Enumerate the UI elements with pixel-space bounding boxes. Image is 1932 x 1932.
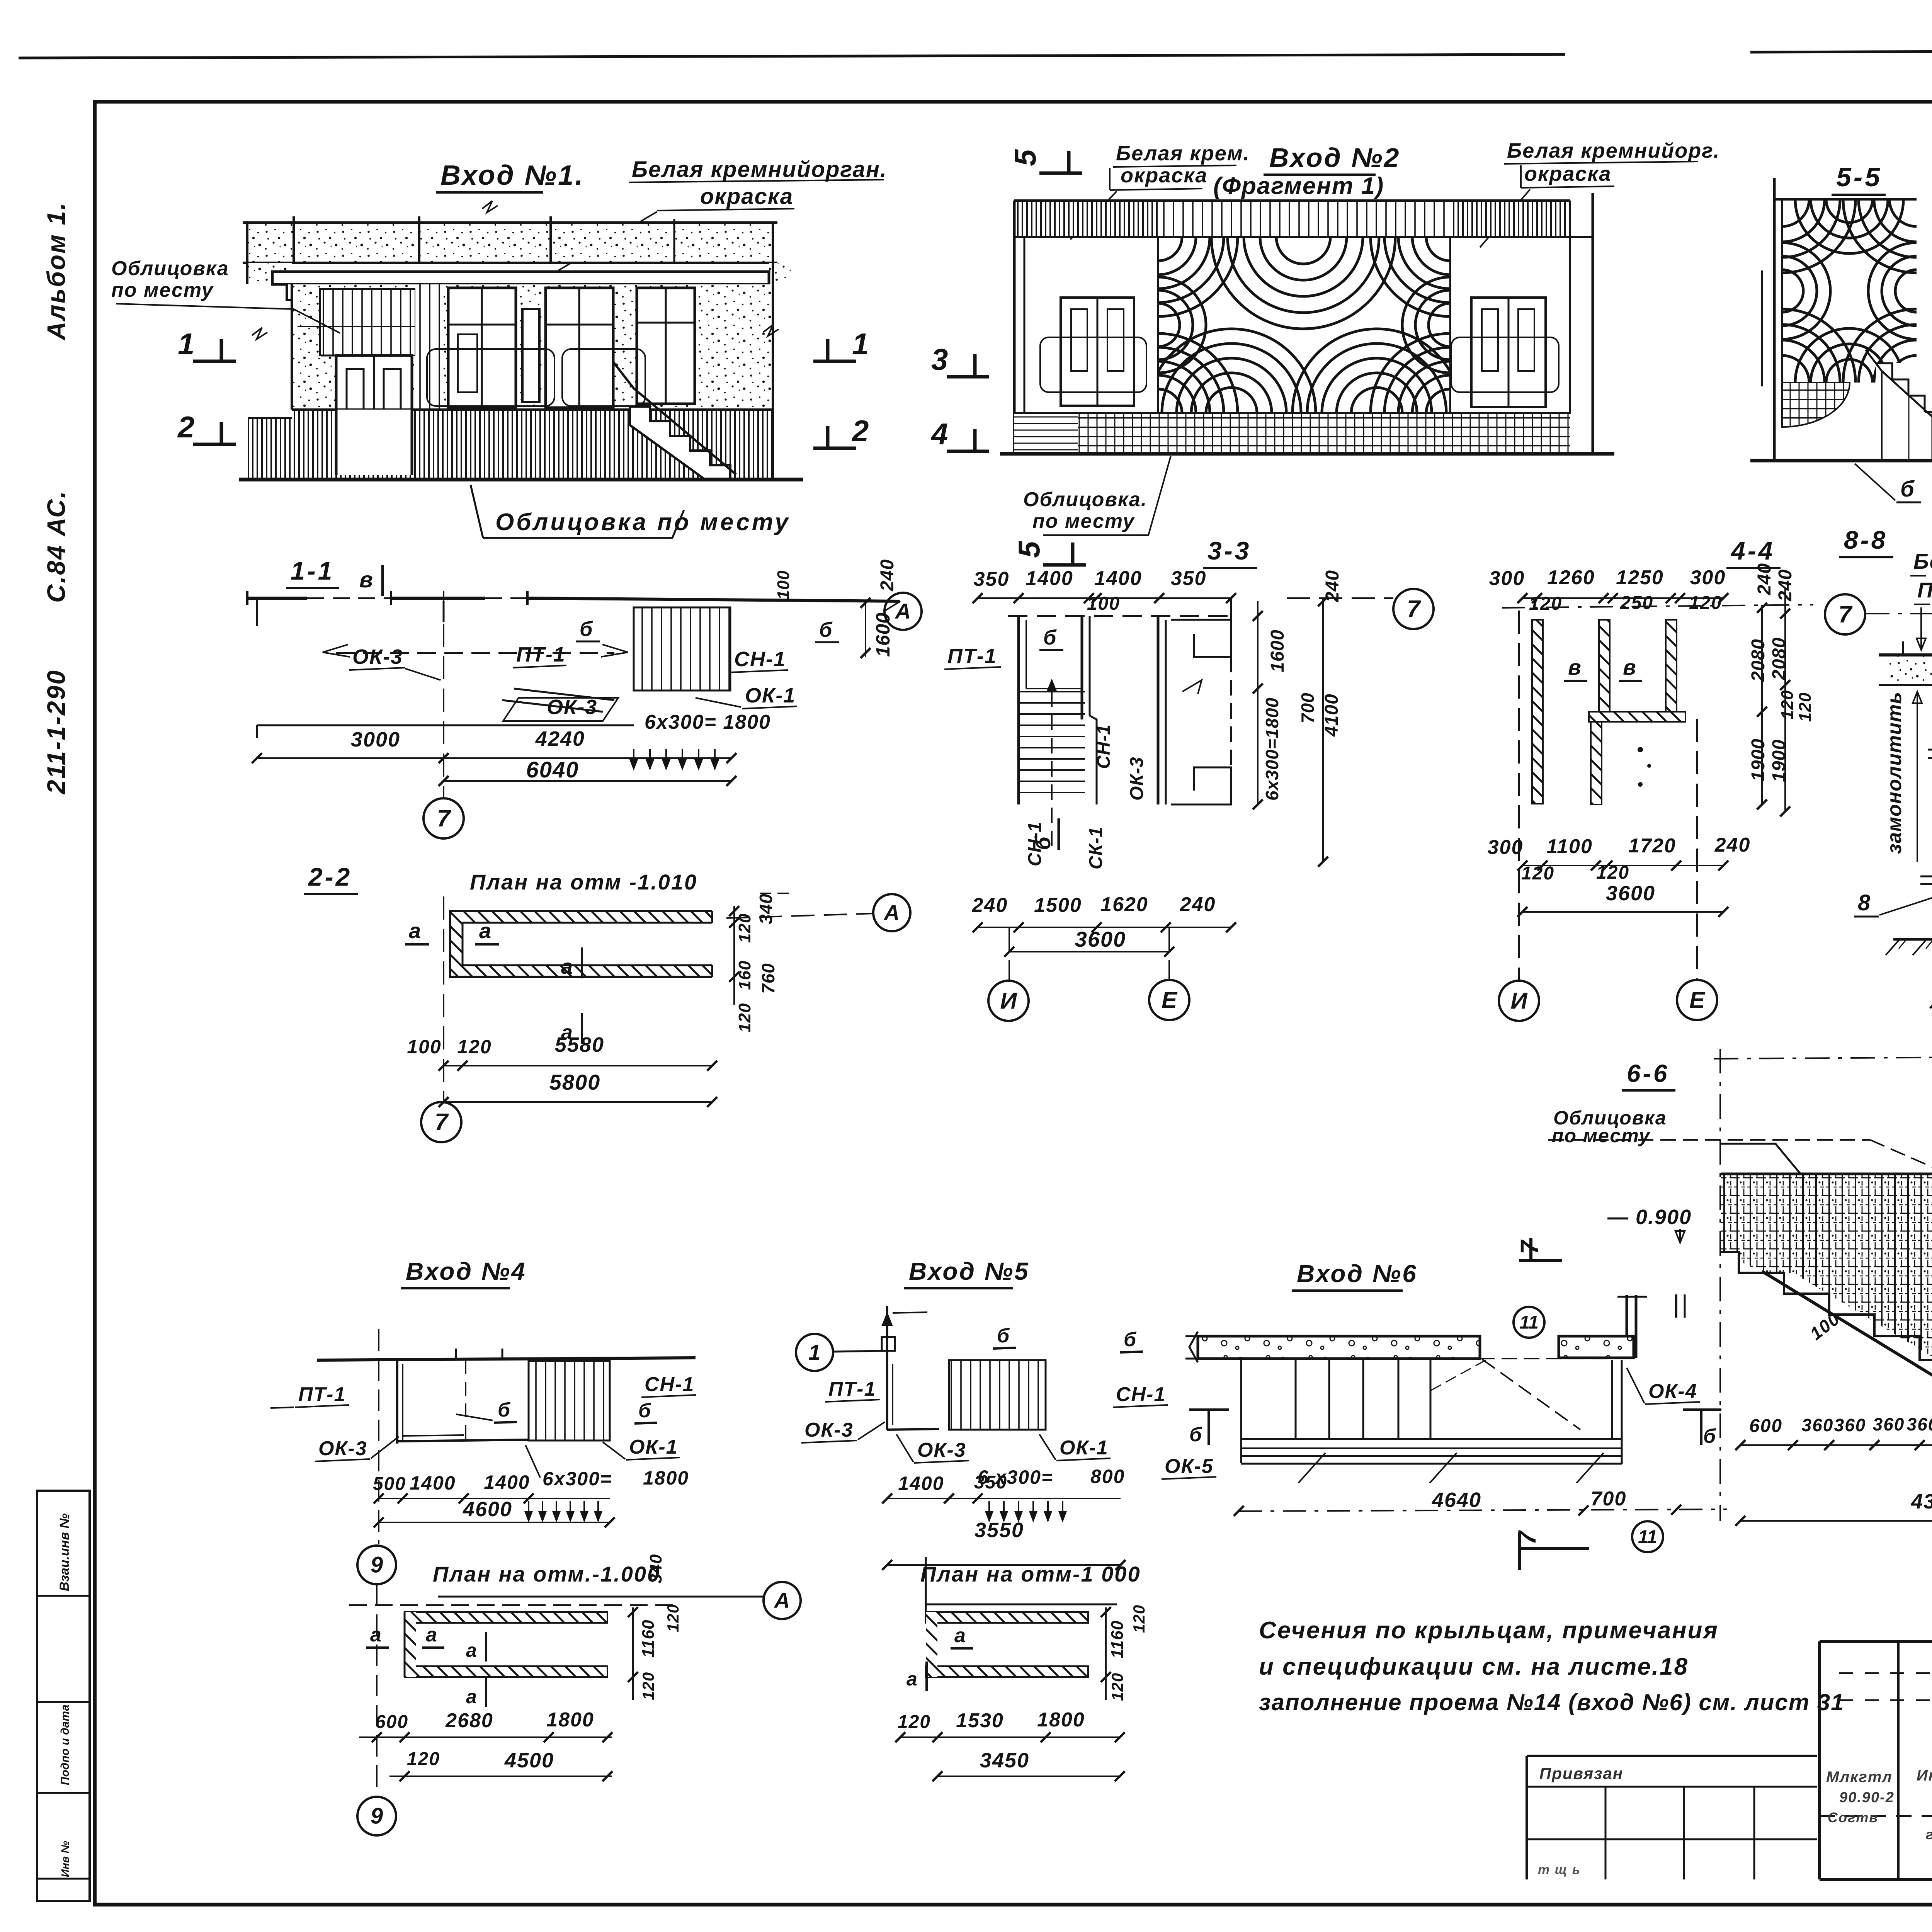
svg-text:3600: 3600 [1075, 927, 1126, 951]
svg-text:5: 5 [1012, 541, 1046, 558]
svg-text:б: б [1043, 626, 1057, 649]
svg-text:Вход №4: Вход №4 [406, 1257, 527, 1285]
entrance 2 section marks 3 and 4 [947, 375, 989, 379]
svg-text:1250: 1250 [1616, 566, 1664, 589]
entrance 1 section marks 1,2 right [813, 360, 856, 363]
svg-text:250: 250 [1620, 593, 1653, 613]
svg-text:С.84 АС.: С.84 АС. [42, 490, 70, 603]
svg-text:90.90-2: 90.90-2 [1839, 1789, 1895, 1806]
svg-text:окраска: окраска [1121, 164, 1207, 187]
svg-text:б: б [580, 617, 593, 641]
svg-text:(Фрагмент 1): (Фрагмент 1) [1213, 173, 1384, 199]
3-3 plan top dashed line [1008, 615, 1233, 617]
svg-text:1260: 1260 [1547, 566, 1595, 589]
svg-text:8: 8 [1858, 890, 1871, 915]
svg-text:б: б [1189, 1423, 1202, 1446]
svg-text:1400: 1400 [484, 1471, 530, 1493]
svg-text:Сечения по крыльцам, прим: Сечения по крыльцам, примечания [1259, 1617, 1719, 1644]
svg-text:6х300=1800: 6х300=1800 [1262, 697, 1282, 801]
svg-text:СН-1: СН-1 [734, 648, 786, 671]
svg-text:а: а [479, 918, 492, 943]
svg-text:3450: 3450 [980, 1749, 1029, 1772]
svg-text:7: 7 [1515, 1239, 1543, 1254]
2-2 axis A [726, 913, 874, 918]
svg-text:б: б [997, 1325, 1010, 1347]
svg-text:1400: 1400 [898, 1473, 944, 1494]
svg-text:240: 240 [1714, 834, 1751, 856]
entrance 5 stair hatch [949, 1360, 1046, 1430]
entrance 1 section marks 1,2 left [193, 360, 236, 363]
svg-text:6х300= 1800: 6х300= 1800 [645, 711, 771, 733]
entrance 1 low rounded panels [427, 349, 554, 406]
entrance 4 top wall line [317, 1358, 696, 1360]
svg-text:ПТ-1: ПТ-1 [516, 643, 566, 666]
svg-text:— 0.900: — 0.900 [1607, 1206, 1692, 1229]
svg-text:Облицовка по месту: Облицовка по месту [495, 509, 791, 536]
svg-text:по месту: по месту [111, 279, 214, 301]
svg-text:т щ ь: т щ ь [1538, 1862, 1581, 1877]
svg-text:и спецификации см. на лис: и спецификации см. на листе.18 [1259, 1653, 1689, 1680]
svg-text:Облицовка: Облицовка [111, 257, 229, 280]
entrance 1 basement hatched band [248, 418, 292, 479]
svg-text:ОК-4: ОК-4 [1648, 1380, 1697, 1403]
4-4 axis dash-dot top [1502, 605, 1813, 608]
entrance 1 window C [637, 288, 695, 404]
svg-text:100: 100 [774, 570, 793, 600]
svg-text:Белая кремнийорган.: Белая кремнийорган. [632, 157, 887, 182]
svg-text:Бетон М200: Бетон М200 [1913, 549, 1932, 573]
svg-text:4600: 4600 [463, 1498, 512, 1521]
entrance 1 striped pier panel over door [320, 289, 415, 355]
4-4 wall bars in section [1532, 620, 1543, 804]
4-4 small circles deco [1638, 747, 1643, 752]
entrance 6 section mark 7 top [1519, 1259, 1562, 1262]
svg-text:Альбом 1.: Альбом 1. [42, 202, 70, 341]
entrance 2 right door panel [1450, 237, 1570, 413]
svg-text:120: 120 [457, 1036, 492, 1058]
svg-text:Облицовка.: Облицовка. [1023, 488, 1147, 511]
entrance 6 axis circle 11 bottom [1632, 1521, 1663, 1552]
svg-text:2: 2 [177, 410, 194, 444]
svg-text:1600: 1600 [872, 612, 894, 657]
svg-text:1620: 1620 [1100, 893, 1148, 916]
4-4 axis circles И Е [1518, 611, 1520, 980]
svg-text:300: 300 [1690, 566, 1726, 589]
svg-text:3: 3 [931, 342, 948, 376]
1-1 top wall lines [247, 597, 307, 600]
6-6 building corner [1720, 1144, 1800, 1173]
3-3 right corridor walls [1157, 616, 1160, 804]
svg-text:ПТ-1: ПТ-1 [828, 1378, 876, 1400]
entrance 6 dashed brace [1482, 1359, 1580, 1430]
sheet top edge line [19, 54, 1565, 58]
svg-text:Е: Е [1689, 987, 1706, 1013]
svg-text:1: 1 [852, 327, 869, 361]
entrance 2 top stripe band middle (sparse) [1158, 201, 1450, 237]
svg-text:4-4: 4-4 [1730, 536, 1775, 565]
svg-text:в: в [1568, 655, 1582, 679]
svg-text:300: 300 [1489, 567, 1525, 590]
entrance 5 corner pilaster mark [886, 1306, 888, 1360]
svg-text:А: А [883, 900, 900, 925]
svg-text:Е: Е [1162, 987, 1178, 1013]
svg-text:1800: 1800 [1037, 1709, 1085, 1731]
svg-text:1800: 1800 [546, 1709, 594, 1731]
svg-text:7: 7 [437, 805, 451, 832]
svg-text:Вход №2: Вход №2 [1269, 143, 1400, 173]
svg-text:800: 800 [1090, 1466, 1125, 1487]
title block inner dashes top [1839, 1672, 1932, 1674]
svg-text:1720: 1720 [1628, 835, 1676, 857]
svg-text:211-1-290: 211-1-290 [42, 669, 70, 795]
svg-text:2680: 2680 [445, 1709, 493, 1732]
entrance 1 window B [546, 288, 613, 408]
entrance 6 right slab [1559, 1336, 1634, 1358]
svg-text:Подпо и дата: Подпо и дата [59, 1704, 71, 1785]
svg-text:б: б [1124, 1328, 1137, 1351]
svg-text:1: 1 [178, 327, 194, 361]
svg-text:700: 700 [1591, 1488, 1627, 1510]
svg-text:4340: 4340 [1911, 1490, 1932, 1513]
svg-text:360: 360 [1802, 1415, 1834, 1435]
entrance 2 outline [1013, 201, 1016, 453]
3-3 axis circles И Е [1009, 927, 1010, 980]
svg-text:Плита ПТ-1: Плита ПТ-1 [1917, 578, 1932, 602]
svg-text:И: И [1510, 988, 1528, 1014]
svg-text:Привязан: Привязан [1539, 1764, 1623, 1782]
svg-text:б: б [498, 1399, 511, 1421]
svg-text:11: 11 [1519, 1312, 1539, 1333]
svg-text:4100: 4100 [1321, 694, 1342, 737]
8-8 slab [1887, 655, 1932, 685]
entrance 6 bottom rails [1241, 1438, 1622, 1440]
svg-text:120: 120 [1689, 593, 1722, 613]
svg-text:360: 360 [1873, 1414, 1905, 1434]
svg-text:И: И [1000, 988, 1017, 1014]
5-5 brick apron [1782, 383, 1850, 427]
svg-text:700: 700 [1298, 692, 1318, 723]
svg-text:в: в [359, 567, 374, 592]
svg-text:Инв №: Инв № [59, 1841, 71, 1877]
svg-text:б: б [638, 1400, 651, 1422]
svg-text:Вход №1.: Вход №1. [440, 160, 584, 191]
svg-text:3600: 3600 [1606, 882, 1655, 905]
svg-text:ПТ-1: ПТ-1 [947, 645, 997, 668]
svg-text:240: 240 [1180, 893, 1216, 916]
svg-text:120: 120 [407, 1749, 440, 1769]
1-1 dashed guides [336, 652, 614, 654]
svg-text:1100: 1100 [1546, 835, 1593, 858]
svg-text:7: 7 [435, 1109, 449, 1136]
2-2 axis circle 7 [421, 1102, 461, 1142]
svg-text:4500: 4500 [504, 1749, 554, 1772]
8-8 axis circle 7 [1825, 594, 1865, 634]
svg-text:по месту: по месту [1032, 510, 1135, 532]
svg-text:5800: 5800 [549, 1070, 601, 1094]
svg-text:окраска: окраска [1524, 162, 1611, 185]
svg-text:1500: 1500 [1034, 894, 1082, 917]
entrance 2 left door panel [1024, 237, 1158, 413]
svg-text:350: 350 [1171, 567, 1207, 590]
svg-text:Вход №6: Вход №6 [1297, 1260, 1418, 1287]
svg-text:2: 2 [851, 414, 869, 448]
1-1 stair hatch [634, 607, 730, 690]
entrance 5 plan walls [886, 1360, 888, 1430]
entrance 1 window A [448, 288, 516, 408]
svg-text:4640: 4640 [1432, 1488, 1481, 1512]
entrance 4 stair hatch [529, 1361, 610, 1440]
svg-text:1400: 1400 [1094, 567, 1142, 590]
entrance 6 section mark 7 bottom [1518, 1532, 1521, 1570]
svg-text:заполнение проема №14 (вход: заполнение проема №14 (вход №6) см. лист… [1259, 1689, 1845, 1715]
svg-text:Белая крем.: Белая крем. [1116, 142, 1250, 165]
entrance 6 leader dashes [1298, 1453, 1325, 1483]
svg-text:8-8: 8-8 [1844, 526, 1888, 554]
1-1 room outline [256, 598, 258, 626]
svg-text:А: А [774, 1588, 790, 1612]
svg-text:СН-1: СН-1 [1116, 1383, 1166, 1406]
entrance 1 ground line [239, 478, 803, 481]
entrance 2 ground line [1000, 452, 1614, 456]
svg-text:3550: 3550 [975, 1519, 1024, 1542]
3-3 left room walls [1017, 616, 1020, 804]
svg-text:3-3: 3-3 [1207, 536, 1251, 565]
svg-text:ОК-1: ОК-1 [629, 1436, 678, 1458]
svg-text:План на отм.-1.000: План на отм.-1.000 [433, 1562, 660, 1586]
svg-text:350: 350 [974, 568, 1010, 590]
svg-text:1900: 1900 [1769, 739, 1789, 782]
svg-text:360: 360 [1907, 1414, 1932, 1434]
svg-text:1-1: 1-1 [291, 556, 334, 585]
entrance 6 axis circle 11 top [1514, 1307, 1544, 1338]
svg-text:240: 240 [1754, 563, 1775, 595]
svg-text:ОК-3: ОК-3 [318, 1437, 367, 1460]
3-3 axis circle 7 right [1287, 597, 1393, 599]
6-6 steps [1721, 1252, 1932, 1360]
entrance 6 posts [1240, 1359, 1242, 1439]
svg-text:б: б [819, 618, 833, 641]
svg-text:5-5: 5-5 [1836, 162, 1882, 192]
svg-text:окраска: окраска [700, 184, 793, 209]
entrance 2 top stripe band right [1450, 201, 1570, 237]
svg-text:по месту: по месту [1552, 1125, 1650, 1146]
svg-text:600: 600 [375, 1712, 408, 1732]
svg-text:в: в [1623, 655, 1637, 679]
entrance 5 axis circle 1 [796, 1334, 833, 1371]
svg-text:120: 120 [639, 1672, 657, 1700]
svg-text:а: а [906, 1668, 918, 1690]
svg-text:а: а [426, 1624, 438, 1646]
left side small table [37, 1491, 90, 1901]
svg-text:2080: 2080 [1769, 637, 1789, 680]
svg-text:Взаи.инв №: Взаи.инв № [57, 1514, 72, 1591]
svg-text:б: б [1031, 836, 1055, 850]
svg-text:ОК-3: ОК-3 [1127, 757, 1147, 801]
svg-text:9: 9 [371, 1804, 383, 1829]
svg-text:Белая кремнийорг.: Белая кремнийорг. [1507, 139, 1720, 162]
svg-text:1600: 1600 [1267, 629, 1288, 672]
title block emblem columns [1897, 1641, 1900, 1879]
entrance 1 door (double leaf) [336, 355, 412, 475]
svg-text:1800: 1800 [643, 1467, 689, 1489]
svg-text:120: 120 [1130, 1605, 1148, 1633]
entrance 2 top stripe band left [1014, 201, 1158, 237]
svg-text:1160: 1160 [1108, 1620, 1127, 1658]
entrance 4 axis circle 9 low [376, 1584, 378, 1794]
svg-text:ОК-1: ОК-1 [745, 684, 796, 707]
entrance 4 U-plan [405, 1612, 607, 1623]
svg-text:6х300=: 6х300= [543, 1468, 612, 1490]
left attachment table [1527, 1755, 1817, 1757]
svg-text:Млкгтл: Млкгтл [1826, 1769, 1893, 1786]
svg-text:120: 120 [1108, 1673, 1126, 1701]
entrance 2 basement tile band [1014, 413, 1078, 453]
svg-text:350: 350 [974, 1472, 1007, 1493]
entrance 2 section marks 5 (top) and 5 (bottom) [1039, 172, 1082, 175]
entrance 1 top concrete band (speckled) [247, 223, 773, 263]
svg-text:6040: 6040 [526, 757, 579, 782]
svg-text:500: 500 [373, 1474, 406, 1494]
svg-text:замонолитить: замонолитить [1883, 692, 1906, 854]
entrance 1 wall speckle field [292, 284, 773, 410]
svg-text:а: а [561, 955, 573, 978]
svg-text:2-2: 2-2 [308, 862, 352, 891]
svg-text:120: 120 [1778, 690, 1797, 719]
entrance 6 left slab (speckled) [1198, 1336, 1480, 1359]
svg-text:Вход №5: Вход №5 [909, 1257, 1030, 1285]
svg-text:6-6: 6-6 [1627, 1060, 1670, 1087]
svg-text:1400: 1400 [1026, 567, 1073, 590]
svg-text:4240: 4240 [535, 727, 585, 750]
entrance 1 leader to canopy [558, 212, 657, 270]
svg-text:План на отм-1 000: План на отм-1 000 [920, 1562, 1141, 1586]
svg-text:а: а [409, 918, 422, 943]
svg-text:7: 7 [1838, 601, 1853, 628]
svg-text:3000: 3000 [351, 728, 400, 751]
svg-text:А: А [895, 599, 911, 623]
entrance 1 narrow window [522, 309, 539, 402]
svg-text:100: 100 [407, 1036, 441, 1058]
svg-text:ОК-5: ОК-5 [1165, 1455, 1214, 1478]
svg-text:ОК-3: ОК-3 [352, 645, 403, 668]
svg-text:а: а [466, 1639, 478, 1661]
svg-text:Индикин: Индикин [1917, 1767, 1932, 1784]
svg-text:160: 160 [735, 961, 754, 990]
svg-text:гь.: гь. [1926, 1827, 1932, 1842]
svg-text:120: 120 [664, 1604, 682, 1632]
svg-text:11: 11 [1638, 1527, 1657, 1547]
svg-text:340: 340 [646, 1554, 665, 1583]
svg-text:а: а [466, 1686, 478, 1708]
svg-text:1900: 1900 [1748, 738, 1769, 781]
svg-text:4: 4 [930, 417, 948, 451]
5-5 ground line [1750, 459, 1932, 463]
entrance 4 plan walls [396, 1360, 398, 1444]
2-2 U-shaped wall plan [450, 911, 712, 923]
svg-text:300: 300 [1488, 836, 1524, 859]
entrance 1 wavy break marks [252, 328, 267, 339]
svg-text:СН-1: СН-1 [1094, 724, 1114, 769]
entrance 4 axis circle 9 [378, 1329, 379, 1544]
entrance 1 pier hatch right of door [415, 284, 442, 410]
svg-text:9: 9 [371, 1553, 383, 1578]
3-3 stair treads [1020, 691, 1085, 692]
svg-text:360: 360 [1834, 1415, 1866, 1435]
svg-text:240: 240 [877, 559, 898, 592]
svg-text:1: 1 [808, 1340, 820, 1364]
svg-text:7: 7 [1407, 596, 1421, 622]
svg-text:ПТ-1: ПТ-1 [298, 1383, 346, 1406]
6-6 top axis dash-dot [1714, 1056, 1932, 1059]
svg-text:2080: 2080 [1748, 639, 1769, 682]
svg-text:120: 120 [898, 1712, 931, 1732]
svg-text:1160: 1160 [639, 1619, 658, 1658]
svg-text:ОК-3: ОК-3 [917, 1439, 966, 1461]
6-6 facing grid mass [1721, 1174, 1932, 1360]
svg-text:7: 7 [1513, 1530, 1541, 1545]
svg-text:СК-1: СК-1 [1086, 827, 1106, 869]
svg-text:5580: 5580 [555, 1033, 604, 1056]
svg-text:а: а [954, 1624, 966, 1647]
svg-text:120: 120 [1796, 692, 1815, 722]
entrance 4 axis A with long leader [438, 1596, 763, 1598]
svg-text:СН-1: СН-1 [645, 1373, 694, 1396]
8-8 ground line [1893, 938, 1932, 941]
svg-text:Согтв: Согтв [1828, 1810, 1878, 1825]
entrance 1 stair railing [614, 362, 736, 474]
svg-text:ОК-1: ОК-1 [1060, 1437, 1109, 1459]
svg-text:1530: 1530 [956, 1709, 1004, 1732]
svg-text:120: 120 [1529, 594, 1562, 614]
svg-text:340: 340 [756, 893, 776, 924]
svg-text:б: б [1703, 1425, 1716, 1447]
svg-text:240: 240 [972, 894, 1008, 917]
svg-text:5: 5 [1008, 149, 1042, 166]
svg-text:1400: 1400 [410, 1472, 456, 1494]
svg-text:План на отм -1.010: План на отм -1.010 [470, 870, 697, 894]
svg-text:120: 120 [735, 1003, 754, 1032]
entrance 5 U-plan [925, 1557, 927, 1612]
1-1 axis A right [884, 601, 900, 611]
svg-text:ОК-3: ОК-3 [547, 696, 597, 719]
svg-text:б: б [1900, 476, 1915, 502]
1-1 axis circle 7 [443, 591, 444, 798]
5-5 stairs [1876, 363, 1932, 461]
title block outline [1820, 1640, 1932, 1643]
entrance 1 entry steps [630, 406, 730, 480]
svg-text:600: 600 [1749, 1416, 1782, 1436]
svg-text:ОК-3: ОК-3 [804, 1419, 854, 1441]
entrance 1 canopy slab [272, 272, 769, 284]
svg-text:760: 760 [758, 963, 778, 994]
5-5 wall outline [1774, 198, 1917, 201]
